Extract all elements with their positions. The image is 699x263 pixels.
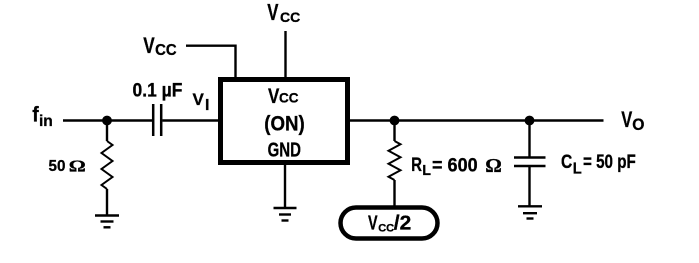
wire input from fin to coupling capacitor xyxy=(63,119,152,121)
wire junction to resistor R top xyxy=(106,121,108,142)
wire VCC left label to box top xyxy=(186,46,236,78)
ground symbol under box GND pin xyxy=(274,208,297,221)
svg-text:= 600: = 600 xyxy=(432,154,478,176)
node junction dot at CL xyxy=(525,116,535,126)
svg-text:V: V xyxy=(193,90,205,109)
svg-text:CC: CC xyxy=(378,222,394,234)
ground symbol under 50 ohm resistor xyxy=(95,216,119,228)
wire junction to RL top xyxy=(393,121,395,142)
label 50 ohm xyxy=(49,157,86,176)
svg-text:CC: CC xyxy=(279,91,299,106)
wire resistor bottom to ground xyxy=(106,189,108,215)
wire RL bottom to VCC/2 oval xyxy=(393,180,395,206)
wire GND pin to ground xyxy=(284,164,286,208)
capacitor 0.1 uF plates xyxy=(153,104,161,136)
node junction dot at fin xyxy=(102,116,112,126)
svg-text:CC: CC xyxy=(280,9,300,25)
svg-text:L: L xyxy=(573,160,582,177)
svg-text:V: V xyxy=(267,1,279,26)
svg-text:V: V xyxy=(268,85,280,108)
svg-text:50: 50 xyxy=(49,158,66,175)
label VCC/2 xyxy=(368,211,411,234)
wire capacitor to box VI pin xyxy=(163,119,220,121)
svg-text:I: I xyxy=(205,97,209,114)
svg-text:V: V xyxy=(621,108,632,133)
resistor 50 ohm zigzag xyxy=(102,141,113,189)
device box U1 xyxy=(221,80,348,163)
svg-text:L: L xyxy=(422,163,431,179)
svg-text:Ω: Ω xyxy=(69,157,86,176)
svg-text:GND: GND xyxy=(268,138,302,161)
svg-text:V: V xyxy=(368,211,378,234)
svg-text:(ON): (ON) xyxy=(264,112,304,135)
wire box output to VO xyxy=(349,119,604,121)
svg-text:in: in xyxy=(39,113,53,130)
svg-text:= 50 pF: = 50 pF xyxy=(583,150,636,172)
node junction dot at RL xyxy=(390,116,400,126)
VCC/2 source oval xyxy=(341,208,438,239)
wire VCC top to box top xyxy=(284,31,286,78)
svg-text:CC: CC xyxy=(155,42,177,59)
label RL = 600 ohm xyxy=(411,154,502,179)
ground symbol under CL xyxy=(518,206,542,218)
resistor RL zigzag xyxy=(389,141,401,180)
wire junction to CL top plate xyxy=(528,121,530,157)
svg-text:Ω: Ω xyxy=(485,155,502,177)
svg-text:C: C xyxy=(561,150,572,172)
capacitor CL plates xyxy=(514,158,546,167)
svg-text:0.1 µF: 0.1 µF xyxy=(133,79,183,101)
label fin xyxy=(32,104,53,130)
svg-text:O: O xyxy=(632,116,644,134)
wire CL bottom plate to ground xyxy=(528,167,530,206)
svg-text:f: f xyxy=(32,104,39,127)
label VO xyxy=(621,108,644,134)
svg-text:R: R xyxy=(411,154,422,175)
svg-text:/2: /2 xyxy=(394,212,412,234)
label VCC left xyxy=(143,34,176,59)
svg-text:V: V xyxy=(143,34,155,59)
label VCC top xyxy=(267,1,300,26)
label VI xyxy=(193,90,210,114)
box pin label VCC xyxy=(268,85,299,108)
label CL = 50 pF xyxy=(561,150,636,177)
